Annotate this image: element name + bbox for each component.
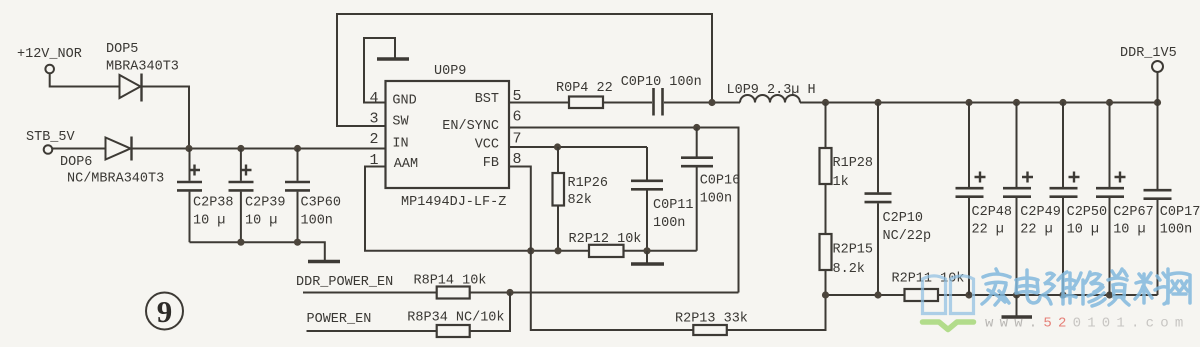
wire EN/SYNC pin 6 across and down <box>509 128 739 293</box>
svg-text:MP1494DJ-LF-Z: MP1494DJ-LF-Z <box>401 195 506 210</box>
svg-text:C2P38: C2P38 <box>193 196 234 211</box>
junction dot EN enable node <box>506 289 513 296</box>
resistor R8P34 NC/10k <box>407 311 504 338</box>
ground bar above IC <box>377 57 409 61</box>
svg-text:DOP5: DOP5 <box>106 42 138 57</box>
svg-text:VCC: VCC <box>475 138 499 153</box>
svg-text:100n: 100n <box>301 214 333 229</box>
svg-text:3: 3 <box>369 111 378 128</box>
junction dot C0P11 bottom / ground tap <box>643 247 650 254</box>
svg-text:NC/22p: NC/22p <box>883 229 932 244</box>
svg-text:www.520101.com: www.520101.com <box>985 316 1189 332</box>
svg-text:IN: IN <box>392 137 408 152</box>
junction dot top rail C2P48 <box>965 99 972 106</box>
wire R0P4 to C0P10 <box>603 102 652 104</box>
wire STB_5V rail to IC pin 2 <box>133 148 386 150</box>
resistor R2P12 10k <box>569 232 642 257</box>
svg-text:6: 6 <box>513 109 522 126</box>
svg-text:MBRA340T3: MBRA340T3 <box>106 60 179 75</box>
wire ground rail under output caps <box>938 294 1158 296</box>
svg-text:R2P12 10k: R2P12 10k <box>569 232 642 247</box>
op-amp U0P9 MP1494DJ-LF-Z body <box>386 64 510 210</box>
svg-text:2: 2 <box>369 131 378 148</box>
svg-text:22 µ: 22 µ <box>972 223 1004 238</box>
wire C0P10 to inductor node <box>664 102 740 104</box>
svg-text:FB: FB <box>483 156 499 171</box>
svg-text:R1P28: R1P28 <box>833 156 874 171</box>
capacitor C2P67 10u <box>1096 103 1154 296</box>
svg-text:82k: 82k <box>568 193 592 208</box>
watermark book logo <box>923 276 974 314</box>
svg-text:L0P9 2.3µ H: L0P9 2.3µ H <box>727 83 816 98</box>
svg-text:DDR_1V5: DDR_1V5 <box>1120 46 1177 61</box>
inductor L0P9 2.3uH <box>727 83 816 103</box>
watermark chinese characters <box>982 269 1190 306</box>
ground loop at pin 4 GND <box>364 38 395 103</box>
junction dot bootstrap node <box>708 99 715 106</box>
capacitor C0P16 100n <box>681 128 740 251</box>
wire BST pin 5 to R0P4 <box>509 102 569 104</box>
junction dot FB column on AAM line <box>527 247 534 254</box>
svg-text:C2P39: C2P39 <box>245 196 286 211</box>
svg-text:C0P17: C0P17 <box>1160 205 1200 220</box>
resistor R1P28 1k <box>820 103 874 191</box>
wire bottom rail under input caps <box>190 242 325 260</box>
ground stem under AAM line <box>646 251 648 263</box>
ground stem output rail <box>1016 295 1018 316</box>
svg-text:C0P10 100n: C0P10 100n <box>621 75 702 90</box>
junction dot top rail R1P28 column <box>822 99 829 106</box>
svg-text:R0P4 22: R0P4 22 <box>556 81 613 96</box>
wire FB pin 8 down to R2P13 line <box>509 167 693 331</box>
node STB_5V terminal <box>26 130 76 154</box>
wire output top rail <box>800 102 1158 104</box>
svg-text:C2P50: C2P50 <box>1067 205 1108 220</box>
svg-text:+12V_NOR: +12V_NOR <box>17 47 82 62</box>
svg-text:U0P9: U0P9 <box>434 64 466 79</box>
capacitor C0P11 100n <box>631 147 694 251</box>
junction dot VCC R1P26 <box>554 143 561 150</box>
svg-text:1k: 1k <box>833 175 849 190</box>
node +12V_NOR terminal <box>17 47 82 73</box>
svg-text:R2P15: R2P15 <box>833 243 874 258</box>
svg-text:8.2k: 8.2k <box>833 262 865 277</box>
junction dot R1P26 bottom <box>554 247 561 254</box>
resistor R2P15 8.2k <box>820 184 874 295</box>
svg-text:C2P10: C2P10 <box>883 211 924 226</box>
capacitor C2P50 10u <box>1050 103 1108 296</box>
svg-text:EN/SYNC: EN/SYNC <box>442 119 499 134</box>
resistor R1P26 82k <box>553 147 609 251</box>
svg-text:9: 9 <box>157 294 173 329</box>
junction dot rail / C3P60 <box>294 145 301 152</box>
svg-text:10 µ: 10 µ <box>193 214 225 229</box>
wire R2P13 to divider bottom node <box>727 295 826 330</box>
capacitor C2P39 10u <box>229 149 286 243</box>
junction dot rail / D0P5 / C2P38 <box>185 145 192 152</box>
svg-text:R2P13 33k: R2P13 33k <box>675 312 748 327</box>
capacitor C0P10 100n <box>621 75 702 116</box>
svg-text:R8P14 10k: R8P14 10k <box>414 274 487 289</box>
wire SW top loop from pin 3 to bootstrap node <box>337 14 712 126</box>
junction dot top rail C0P17 <box>1154 99 1161 106</box>
node DDR_1V5 terminal <box>1120 46 1177 103</box>
junction dot gnd rail C2P67 <box>1106 291 1113 298</box>
svg-text:100n: 100n <box>1160 223 1192 238</box>
junction dot gnd rail C2P49 <box>1013 291 1020 298</box>
svg-text:GND: GND <box>392 94 416 109</box>
capacitor C2P10 NC/22p <box>865 103 932 296</box>
node POWER_EN <box>307 312 437 331</box>
svg-text:C2P48: C2P48 <box>972 205 1013 220</box>
junction dot top rail C2P67 <box>1106 99 1113 106</box>
svg-text:10 µ: 10 µ <box>245 214 277 229</box>
capacitor C2P48 22u <box>956 103 1013 296</box>
junction dot divider rail <box>822 291 829 298</box>
resistor R2P13 33k <box>675 312 748 336</box>
wire from D0P5 cathode down to STB rail <box>143 87 190 149</box>
svg-text:C0P11: C0P11 <box>653 198 694 213</box>
junction dot top rail C2P49 <box>1013 99 1020 106</box>
ground bar input caps <box>308 260 340 264</box>
svg-text:C3P60: C3P60 <box>301 196 342 211</box>
wire R8P34 up to EN node <box>470 293 510 332</box>
svg-text:4: 4 <box>369 90 378 107</box>
svg-text:DOP6: DOP6 <box>60 155 92 170</box>
junction dot gnd rail C2P48 <box>965 291 972 298</box>
svg-text:100n: 100n <box>653 216 685 231</box>
junction dot C2P10 bottom <box>874 291 881 298</box>
junction dot bottom rail C3P60 <box>294 239 301 246</box>
svg-text:NC/MBRA340T3: NC/MBRA340T3 <box>67 172 164 187</box>
svg-text:AAM: AAM <box>394 157 418 172</box>
wire VCC pin 7 to C0P11 <box>509 146 647 148</box>
diode D0P5 MBRA340T3 <box>106 42 179 102</box>
svg-text:R8P34 NC/10k: R8P34 NC/10k <box>407 311 504 326</box>
capacitor C3P60 100n <box>285 149 341 243</box>
svg-text:8: 8 <box>513 151 522 168</box>
svg-text:C2P49: C2P49 <box>1020 205 1061 220</box>
junction dot EN line C0P16 <box>693 124 700 131</box>
svg-text:R1P26: R1P26 <box>568 176 609 191</box>
svg-text:STB_5V: STB_5V <box>26 130 76 145</box>
ground bar under AAM line <box>631 262 664 266</box>
svg-text:22 µ: 22 µ <box>1020 223 1052 238</box>
svg-text:C0P16: C0P16 <box>700 174 741 189</box>
watermark green ribbon <box>923 322 974 330</box>
diode D0P6 NC/MBRA340T3 <box>60 137 164 187</box>
wire STB_5V to diode D0P6 <box>52 148 105 150</box>
resistor R0P4 22 <box>556 81 613 108</box>
svg-text:SW: SW <box>392 115 409 130</box>
sheet number 9 <box>146 293 183 330</box>
svg-text:10 µ: 10 µ <box>1113 223 1145 238</box>
svg-text:C2P67: C2P67 <box>1113 205 1154 220</box>
wire R2P12 to C0P16 bottom <box>624 250 697 252</box>
svg-text:7: 7 <box>513 131 522 148</box>
junction dot top rail C2P50 <box>1059 99 1066 106</box>
svg-text:100n: 100n <box>700 192 732 207</box>
wire divider bottom rail <box>826 294 905 296</box>
svg-text:10 µ: 10 µ <box>1067 223 1099 238</box>
capacitor C2P38 10u <box>177 149 234 243</box>
ground bar output rail <box>1002 315 1033 319</box>
junction dot gnd rail C2P50 <box>1059 291 1066 298</box>
wire from +12V_NOR to diode D0P5 anode <box>50 73 119 86</box>
svg-text:DDR_POWER_EN: DDR_POWER_EN <box>296 275 393 290</box>
svg-text:POWER_EN: POWER_EN <box>307 312 372 327</box>
capacitor C0P17 100n <box>1144 103 1200 296</box>
capacitor C2P49 22u <box>1003 103 1061 296</box>
wire R8P14 to EN junction <box>470 292 739 294</box>
resistor R8P14 10k <box>414 274 487 299</box>
svg-text:BST: BST <box>475 92 499 107</box>
junction dot bottom rail C2P39 <box>237 239 244 246</box>
resistor R2P11 10k <box>892 272 965 302</box>
wire AAM pin 1 down to feedback line <box>365 167 589 251</box>
junction dot top rail C2P10 column <box>874 99 881 106</box>
junction dot rail / C2P39 <box>237 145 244 152</box>
node DDR_POWER_EN <box>296 275 437 293</box>
